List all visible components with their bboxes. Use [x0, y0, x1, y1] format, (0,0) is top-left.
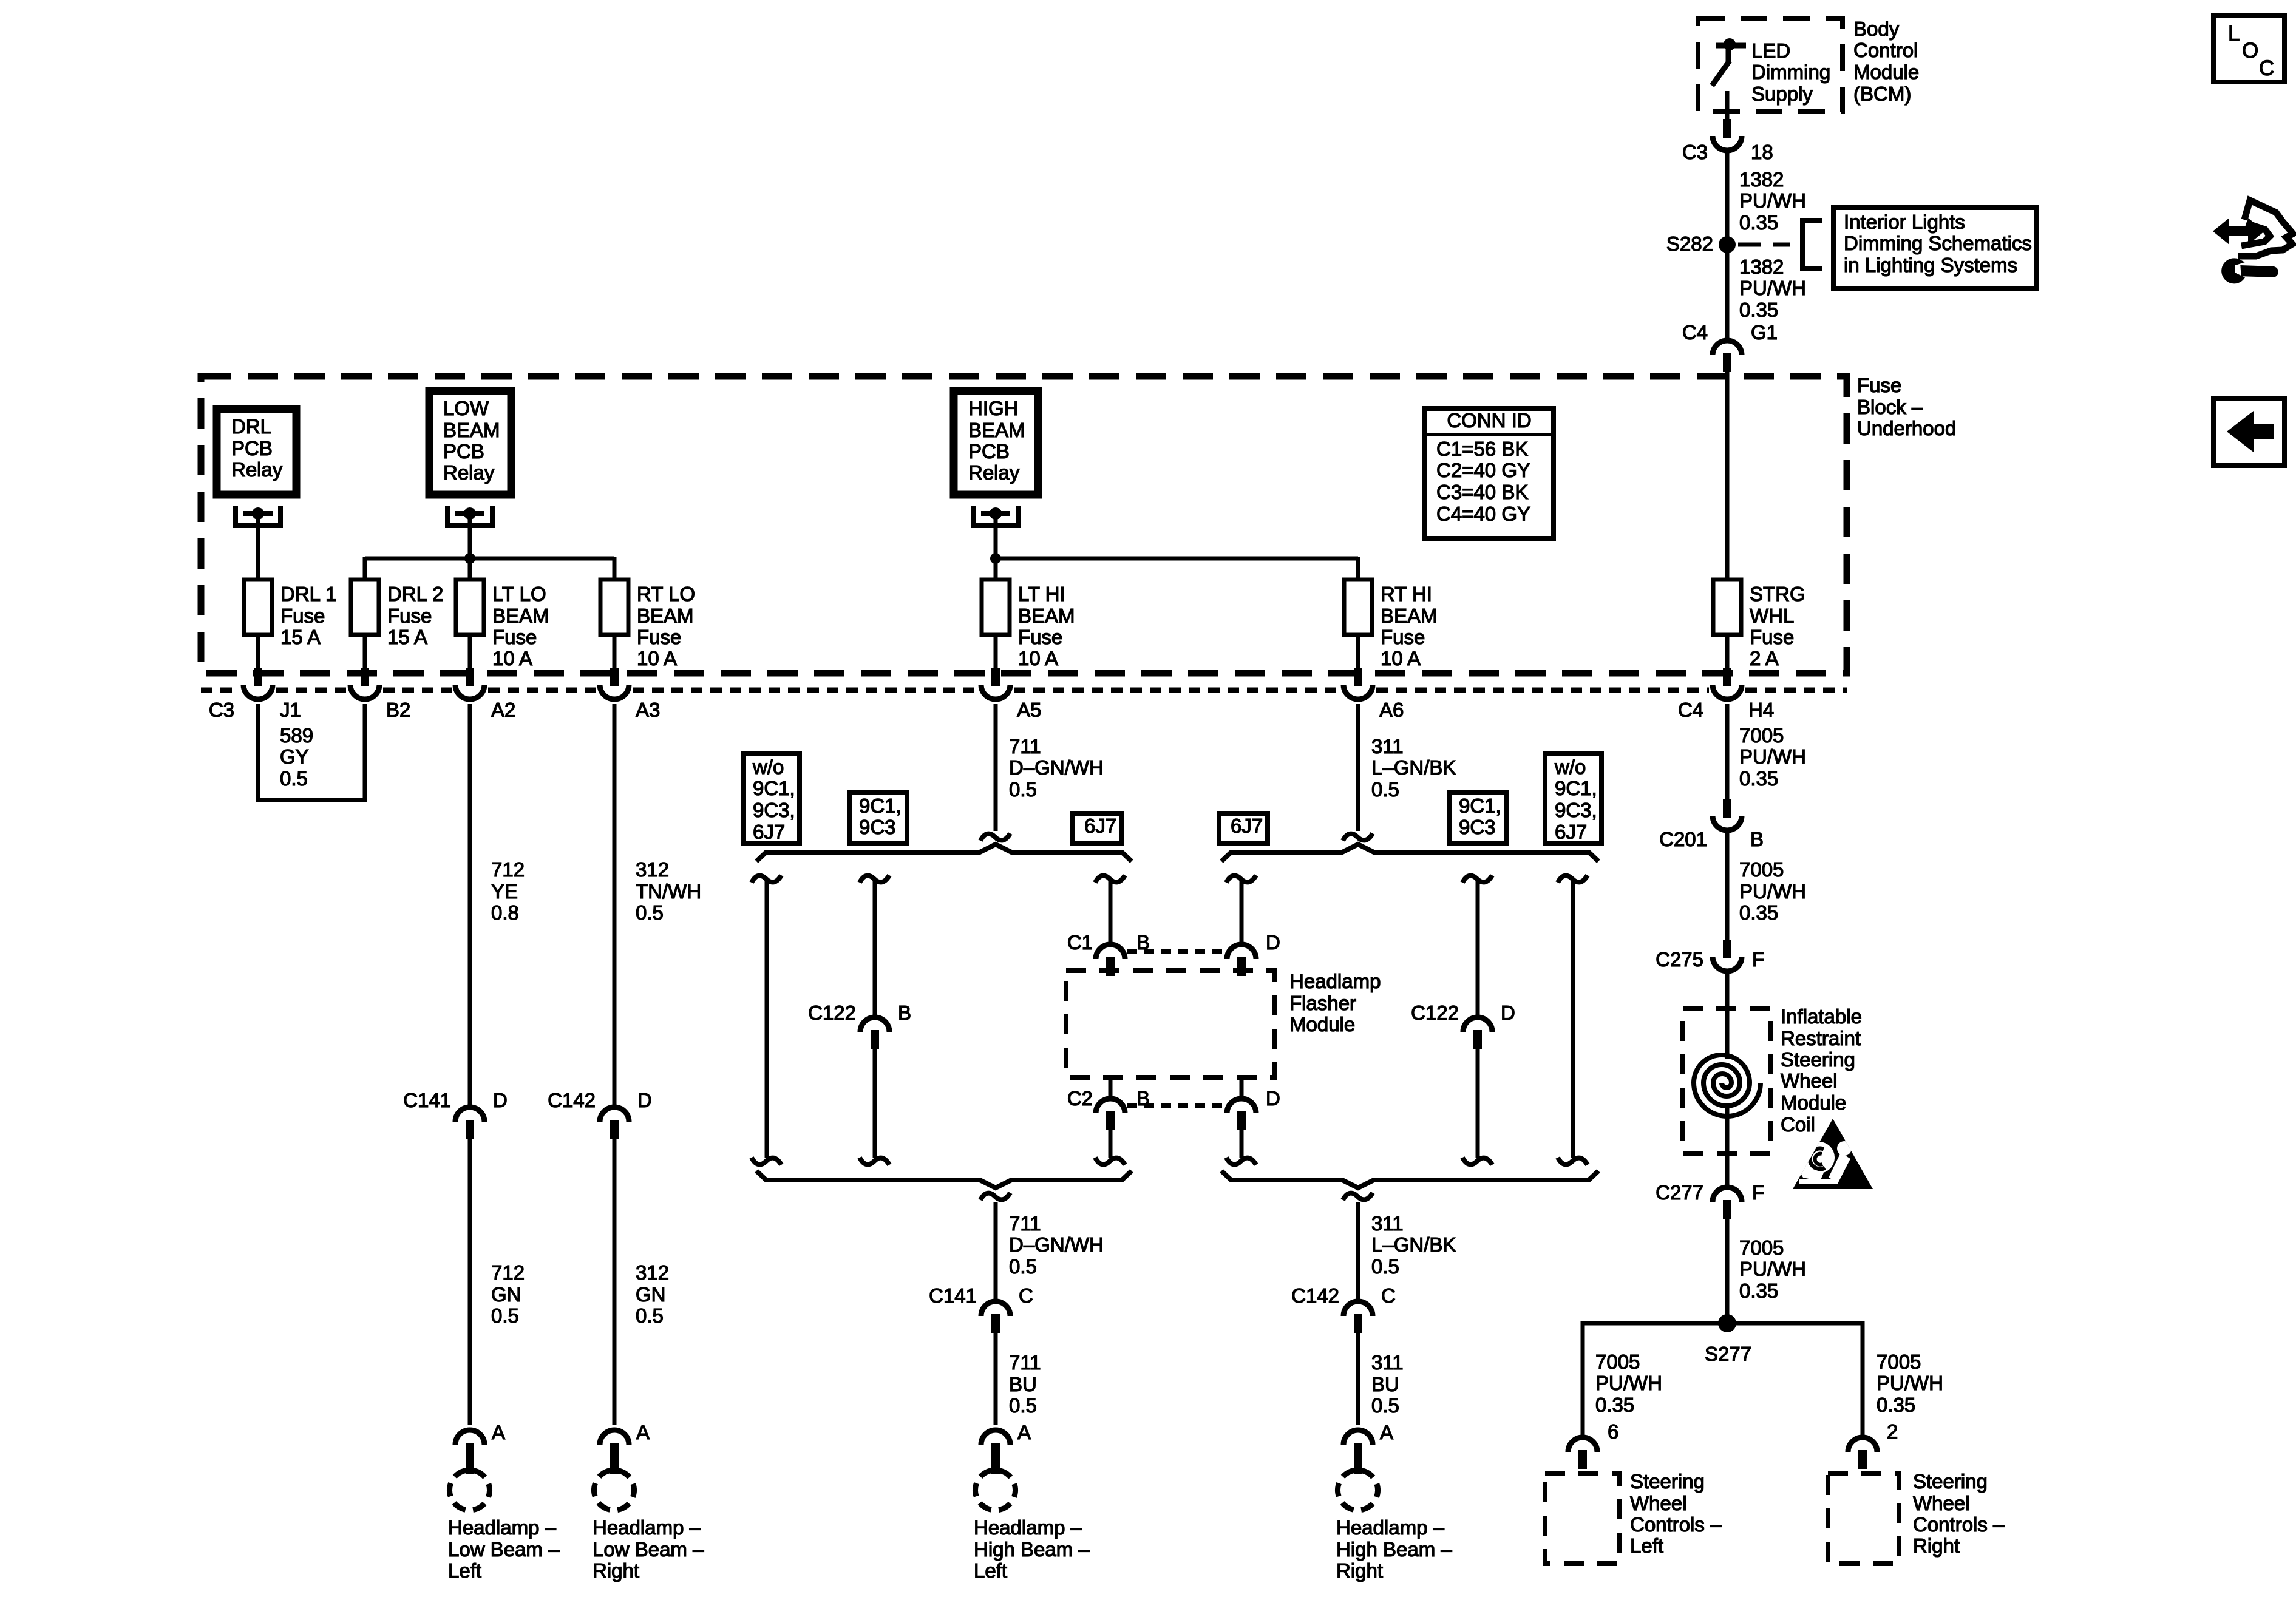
label C of C141	[1019, 1284, 1033, 1307]
label Steering Wheel Controls - Left	[1630, 1470, 1722, 1557]
connector pin A2 at fuse block	[455, 668, 484, 699]
option box w/o 9C1 9C3 6J7 left	[743, 754, 800, 844]
connector C3 pin 18	[1713, 119, 1742, 151]
svg-text:Module: Module	[1853, 61, 1919, 83]
svg-text:Interior Lights: Interior Lights	[1844, 211, 1965, 233]
svg-text:B: B	[1750, 828, 1764, 850]
label wire 312 TN/WH 0.5	[636, 858, 701, 924]
branch top squiggle (left high beam @1829)	[1095, 875, 1125, 883]
svg-text:Relay: Relay	[968, 461, 1020, 484]
label wire 7005 PU/WH 0.35 right branch	[1877, 1351, 1943, 1416]
label A6	[1379, 699, 1404, 721]
svg-text:BEAM: BEAM	[1018, 605, 1075, 627]
label wire 312 GN 0.5	[636, 1261, 669, 1327]
pin bracket of LOW BEAM relay	[447, 506, 492, 526]
svg-text:C: C	[1381, 1284, 1396, 1307]
wire HIGH BEAM relay to LT HI fuse	[994, 514, 998, 580]
svg-text:PCB: PCB	[231, 437, 273, 459]
svg-text:B: B	[898, 1002, 911, 1024]
branch top squiggle (left high beam @1441)	[860, 875, 889, 883]
label C141	[929, 1284, 977, 1307]
label C275	[1656, 948, 1703, 971]
label D of C122 right	[1501, 1002, 1515, 1024]
svg-text:9C1,: 9C1,	[1459, 795, 1501, 817]
label Fuse Block - Underhood	[1857, 374, 1956, 439]
svg-text:D: D	[1266, 931, 1280, 954]
label C4 row	[1678, 699, 1703, 721]
label F of C275	[1752, 948, 1764, 971]
headlamp flasher module dashed box	[1066, 971, 1275, 1077]
wire fan bottom to C142 (right high beam)	[1356, 1202, 1360, 1300]
wire RTLO/A3 fuse to block edge	[613, 635, 617, 671]
steering wheel controls left dashed box	[1545, 1474, 1620, 1564]
svg-text:0.5: 0.5	[1009, 778, 1037, 801]
svg-text:LOW: LOW	[443, 397, 489, 419]
label wire 712 GN 0.5	[491, 1261, 525, 1327]
svg-text:A2: A2	[491, 699, 515, 721]
svg-text:0.35: 0.35	[1739, 299, 1778, 321]
wire S282 to C4	[1725, 253, 1730, 339]
label STRG WHL Fuse 2 A	[1750, 583, 1805, 670]
svg-text:D–GN/WH: D–GN/WH	[1009, 1233, 1104, 1256]
wire H4 to C201	[1725, 704, 1730, 799]
svg-text:D: D	[493, 1089, 508, 1111]
label wire 1382 PU/WH 0.35 upper	[1739, 168, 1806, 234]
connector A (left high beam)	[981, 1430, 1010, 1474]
connector A (right low beam)	[600, 1430, 629, 1474]
svg-text:6J7: 6J7	[1555, 821, 1587, 843]
svg-text:C201: C201	[1659, 828, 1707, 850]
svg-text:Left: Left	[448, 1559, 481, 1582]
branch bottom squiggle (right high beam @2434)	[1462, 1158, 1492, 1165]
pin bracket of HIGH BEAM relay	[973, 506, 1018, 526]
branch wire 6J7 left upper	[1109, 881, 1113, 944]
svg-text:6J7: 6J7	[1231, 815, 1263, 837]
svg-text:C141: C141	[403, 1089, 451, 1111]
svg-text:Inflatable: Inflatable	[1781, 1005, 1862, 1028]
wire A row to fan top (left high beam)	[994, 704, 998, 831]
svg-text:C: C	[1019, 1284, 1033, 1307]
label wire 7005 PU/WH 0.35 left branch	[1595, 1351, 1662, 1416]
fuse LT HI BEAM	[982, 580, 1010, 635]
svg-text:9C1,: 9C1,	[859, 795, 902, 817]
fan-in bottom bracket (left high beam)	[756, 1171, 1132, 1188]
label C122 right	[1411, 1002, 1459, 1024]
label wire 7005 PU/WH 0.35 second	[1739, 858, 1806, 924]
conn id header separator	[1427, 433, 1551, 436]
label A (left high beam)	[1017, 1421, 1031, 1443]
svg-text:10 A: 10 A	[637, 647, 677, 670]
svg-text:BU: BU	[1371, 1373, 1399, 1395]
wire STRG/H4 fuse to block edge	[1725, 635, 1730, 671]
label RT HI BEAM Fuse 10 A	[1381, 583, 1438, 670]
svg-text:TN/WH: TN/WH	[636, 880, 701, 903]
wire coil module to C277	[1725, 1108, 1730, 1186]
label Headlamp – Low Beam – Right	[593, 1516, 704, 1582]
bus riser to RT LO fuse	[613, 557, 617, 580]
wire DRL relay to DRL1 fuse	[256, 514, 260, 580]
svg-text:w/o: w/o	[1554, 756, 1586, 778]
label H4	[1748, 699, 1774, 721]
svg-text:Headlamp: Headlamp	[1289, 970, 1381, 992]
svg-text:PU/WH: PU/WH	[1739, 745, 1806, 768]
svg-text:B2: B2	[386, 699, 410, 721]
svg-text:Flasher: Flasher	[1289, 992, 1356, 1014]
low beam fuse bus	[365, 557, 614, 561]
label w/o 9C1 9C3 6J7 left	[752, 756, 795, 843]
svg-text:9C3: 9C3	[1459, 816, 1496, 838]
connector pin A6 at fuse block	[1343, 668, 1373, 699]
svg-text:7005: 7005	[1877, 1351, 1921, 1373]
svg-text:BEAM: BEAM	[492, 605, 549, 627]
svg-text:w/o: w/o	[752, 756, 784, 778]
svg-text:C275: C275	[1656, 948, 1703, 971]
svg-text:1382: 1382	[1739, 168, 1784, 191]
svg-text:Steering: Steering	[1913, 1470, 1988, 1493]
label C2	[1067, 1087, 1093, 1110]
svg-text:0.5: 0.5	[1371, 1255, 1399, 1278]
svg-text:Right: Right	[1336, 1559, 1383, 1582]
svg-text:10 A: 10 A	[1018, 647, 1058, 670]
fuse LT LO BEAM	[456, 580, 484, 635]
back arrow	[2227, 411, 2274, 452]
svg-text:Fuse: Fuse	[637, 626, 681, 648]
wire C201 to C275	[1725, 833, 1730, 940]
label S277	[1705, 1343, 1751, 1365]
svg-text:C2=40 GY: C2=40 GY	[1436, 459, 1530, 481]
svg-text:C2: C2	[1067, 1087, 1093, 1110]
svg-text:0.8: 0.8	[491, 901, 519, 924]
wire DRL2/B2 fuse to block edge	[363, 635, 367, 671]
label C141	[403, 1089, 451, 1111]
branch wire w/o option right	[1571, 881, 1575, 1158]
lamp dashed circle (right high beam)	[1337, 1470, 1377, 1510]
label HIGH BEAM PCB Relay	[968, 397, 1025, 484]
junction dot high beam bus	[990, 553, 1001, 564]
label D of C141	[493, 1089, 508, 1111]
svg-text:9C3,: 9C3,	[1555, 799, 1597, 821]
svg-text:C3: C3	[1682, 141, 1708, 163]
label Inflatable Restraint Steering Wheel Module Coil	[1781, 1005, 1862, 1136]
svg-text:Left: Left	[974, 1559, 1007, 1582]
svg-text:PU/WH: PU/WH	[1739, 189, 1806, 212]
branch wire 9C1 9C3 left upper	[873, 881, 877, 1017]
branch wire 9C1 9C3 right lower	[1476, 1049, 1480, 1158]
connector C4 pin G1	[1713, 341, 1742, 372]
svg-text:Wheel: Wheel	[1781, 1070, 1838, 1092]
fuse RT HI BEAM	[1344, 580, 1372, 635]
bus riser to RT HI fuse	[1356, 557, 1360, 580]
svg-text:RT HI: RT HI	[1381, 583, 1432, 605]
connector C122 pin D	[1463, 1017, 1492, 1049]
svg-text:Wheel: Wheel	[1913, 1492, 1970, 1514]
connector C275 pin F	[1713, 940, 1742, 971]
svg-text:Fuse: Fuse	[1018, 626, 1062, 648]
svg-text:Control: Control	[1853, 39, 1918, 61]
label 6J7 left	[1084, 815, 1116, 837]
svg-text:BEAM: BEAM	[637, 605, 694, 627]
svg-text:C1: C1	[1067, 931, 1093, 954]
label B of C201	[1750, 828, 1764, 850]
label A5	[1017, 699, 1041, 721]
branch wire 6J7 right lower	[1240, 1130, 1244, 1158]
label F of C277	[1752, 1181, 1764, 1204]
connector A (right high beam)	[1343, 1430, 1373, 1474]
svg-text:DRL: DRL	[231, 415, 271, 438]
label wire 7005 PU/WH 0.35 third	[1739, 1236, 1806, 1302]
svg-text:711: 711	[1009, 735, 1041, 758]
connector pin A5 at fuse block	[981, 668, 1010, 699]
svg-text:BEAM: BEAM	[443, 419, 500, 441]
lamp dashed circle (left high beam)	[976, 1470, 1016, 1510]
svg-text:C142: C142	[1291, 1284, 1339, 1307]
branch top squiggle (right high beam @2591)	[1558, 875, 1588, 883]
wire A row to C142 D (right low beam)	[613, 704, 617, 1106]
svg-text:0.5: 0.5	[1371, 778, 1399, 801]
svg-text:High Beam –: High Beam –	[974, 1538, 1090, 1561]
svg-text:in Lighting Systems: in Lighting Systems	[1844, 254, 2017, 276]
svg-text:9C3,: 9C3,	[753, 799, 795, 821]
label C142	[548, 1089, 596, 1111]
svg-text:0.5: 0.5	[1371, 1394, 1399, 1417]
svg-text:Low Beam –: Low Beam –	[448, 1538, 560, 1561]
switch symbol inside LED Dimming Supply	[1712, 38, 1746, 86]
dashed lead from S282 to reference bracket	[1738, 243, 1790, 247]
label LT LO BEAM Fuse 10 A	[492, 583, 549, 670]
svg-text:711: 711	[1009, 1351, 1041, 1374]
svg-text:GN: GN	[491, 1283, 521, 1306]
svg-text:PU/WH: PU/WH	[1739, 1258, 1806, 1280]
wire C142 to lamp connector (right high beam)	[1356, 1333, 1360, 1425]
branch wire 6J7 left lower	[1109, 1130, 1113, 1158]
svg-text:LT LO: LT LO	[492, 583, 546, 605]
label wire 311 L–GN/BK 0.5 lower	[1371, 1212, 1456, 1278]
connector D lower (headlamp flasher)	[1227, 1099, 1256, 1130]
svg-text:A: A	[1380, 1421, 1393, 1443]
label DRL PCB Relay	[231, 415, 283, 481]
dotted link C2 B to D	[1127, 1103, 1222, 1108]
lamp dashed circle (left low beam)	[450, 1470, 490, 1510]
label 18	[1751, 141, 1773, 163]
svg-text:DRL 2: DRL 2	[387, 583, 443, 605]
label wire 711 D–GN/WH 0.5 lower	[1009, 1212, 1104, 1278]
label S282	[1666, 232, 1713, 255]
svg-text:6J7: 6J7	[1084, 815, 1116, 837]
break squiggle lower (left high beam)	[980, 1193, 1010, 1200]
wire BCM output to connector C3	[1725, 91, 1730, 120]
svg-text:Fuse: Fuse	[280, 605, 325, 627]
relay DRL PCB Relay box	[217, 409, 296, 495]
connector C142 pin D	[600, 1107, 629, 1139]
option box 9C1 9C3 left	[849, 793, 907, 844]
label D of C142	[637, 1089, 652, 1111]
connector D upper (headlamp flasher)	[1227, 944, 1256, 976]
label C122 left	[808, 1002, 856, 1024]
svg-text:DRL 1: DRL 1	[280, 583, 336, 605]
svg-text:Controls –: Controls –	[1913, 1513, 2005, 1536]
label C of C142	[1381, 1284, 1396, 1307]
wire S277 to steering wheel controls left	[1581, 1321, 1585, 1435]
svg-text:311: 311	[1371, 1212, 1404, 1235]
svg-text:Module: Module	[1289, 1013, 1355, 1036]
svg-text:311: 311	[1371, 735, 1404, 758]
svg-text:Block –: Block –	[1857, 396, 1923, 418]
wire RTHI/A6 fuse to block edge	[1356, 635, 1360, 671]
fan-in bottom bracket (right high beam)	[1221, 1171, 1598, 1188]
svg-text:712: 712	[491, 858, 525, 881]
svg-text:Headlamp –: Headlamp –	[1336, 1516, 1445, 1539]
svg-text:YE: YE	[491, 880, 518, 903]
svg-text:(BCM): (BCM)	[1853, 83, 1911, 105]
wire C275 into coil module	[1725, 974, 1730, 1059]
label wire 712 YE 0.8	[491, 858, 525, 924]
branch bottom squiggle (left high beam @1263)	[752, 1158, 781, 1165]
label C3 row	[209, 699, 234, 721]
label wire 1382 PU/WH 0.35 lower	[1739, 256, 1806, 321]
airbag warning triangle	[1793, 1119, 1873, 1189]
fuse block underhood dashed box	[201, 376, 1847, 673]
connector C142 pin C	[1343, 1301, 1373, 1333]
branch bottom squiggle (left high beam @1829)	[1095, 1158, 1125, 1165]
label pin 6	[1608, 1420, 1618, 1443]
label Headlamp – High Beam – Right	[1336, 1516, 1452, 1582]
label Body Control Module (BCM)	[1853, 18, 1919, 105]
label 6J7 right	[1231, 815, 1263, 837]
svg-text:9C3: 9C3	[859, 816, 896, 838]
label RT LO BEAM Fuse 10 A	[637, 583, 695, 670]
label B of C2	[1136, 1087, 1150, 1110]
svg-text:PU/WH: PU/WH	[1739, 880, 1806, 903]
svg-text:C141: C141	[929, 1284, 977, 1307]
svg-text:Fuse: Fuse	[1750, 626, 1794, 648]
fuse RT LO BEAM	[600, 580, 628, 635]
svg-text:Supply: Supply	[1751, 83, 1813, 105]
label LED Dimming Supply	[1751, 39, 1830, 105]
navigation arrow-wrench icon	[2213, 200, 2293, 283]
svg-text:Fuse: Fuse	[387, 605, 432, 627]
wire A row to fan top (right high beam)	[1356, 704, 1360, 831]
svg-text:312: 312	[636, 1261, 669, 1284]
svg-text:0.5: 0.5	[636, 1304, 664, 1327]
label B2	[386, 699, 410, 721]
svg-text:D: D	[1501, 1002, 1515, 1024]
svg-text:0.35: 0.35	[1595, 1394, 1634, 1416]
svg-text:PCB: PCB	[968, 440, 1010, 463]
label LT HI BEAM Fuse 10 A	[1018, 583, 1075, 670]
break squiggle upper (right high beam)	[1343, 833, 1373, 841]
wire LOW BEAM relay through bus to LT LO fuse	[468, 514, 472, 580]
svg-text:6J7: 6J7	[753, 821, 785, 843]
svg-text:Restraint: Restraint	[1781, 1027, 1861, 1049]
BCM LED Dimming Supply dashed box	[1698, 19, 1843, 112]
svg-text:0.35: 0.35	[1739, 767, 1778, 790]
svg-text:Steering: Steering	[1781, 1048, 1855, 1071]
label 9C1 9C3 right	[1459, 795, 1501, 838]
connector pin 6	[1568, 1437, 1597, 1469]
svg-text:Module: Module	[1781, 1091, 1846, 1114]
connector pin 2	[1848, 1437, 1877, 1469]
label A3	[636, 699, 660, 721]
branch wire 9C1 9C3 left lower	[873, 1049, 877, 1158]
break squiggle lower (right high beam)	[1343, 1193, 1373, 1200]
svg-text:Dimming: Dimming	[1751, 61, 1830, 83]
svg-text:High Beam –: High Beam –	[1336, 1538, 1452, 1561]
label Interior Lights Dimming Schematics in Lighting Systems	[1844, 211, 2032, 276]
svg-text:BU: BU	[1009, 1373, 1037, 1395]
svg-text:Fuse: Fuse	[492, 626, 537, 648]
svg-text:PU/WH: PU/WH	[1595, 1372, 1662, 1394]
svg-text:L–GN/BK: L–GN/BK	[1371, 756, 1456, 779]
back arrow legend box	[2213, 398, 2284, 466]
svg-text:L: L	[2228, 22, 2240, 46]
wire J1 to B2 loop	[258, 704, 365, 800]
wire C277 to S277	[1725, 1219, 1730, 1316]
svg-text:D: D	[637, 1089, 652, 1111]
svg-text:F: F	[1752, 1181, 1764, 1204]
splice S282	[1719, 236, 1736, 253]
svg-text:L–GN/BK: L–GN/BK	[1371, 1233, 1456, 1256]
svg-text:711: 711	[1009, 1212, 1041, 1235]
label conn id rows	[1436, 438, 1530, 525]
svg-text:7005: 7005	[1739, 858, 1784, 881]
label C4	[1682, 321, 1708, 344]
label pin 2	[1887, 1420, 1898, 1443]
svg-text:A: A	[636, 1421, 650, 1443]
label Headlamp – Low Beam – Left	[448, 1516, 560, 1582]
svg-text:GN: GN	[636, 1283, 666, 1306]
label J1	[280, 699, 301, 721]
svg-text:A5: A5	[1017, 699, 1041, 721]
wire A row to C141 D (left low beam)	[468, 704, 472, 1106]
svg-text:0.35: 0.35	[1739, 211, 1778, 234]
svg-text:2: 2	[1887, 1420, 1898, 1443]
wire C3 to S282	[1725, 152, 1730, 238]
fuse DRL 2	[351, 580, 379, 635]
svg-text:311: 311	[1371, 1351, 1404, 1374]
connector C141 pin D	[455, 1107, 484, 1139]
reference box Interior Lights Dimming Schematics	[1833, 208, 2037, 289]
label LOW BEAM PCB Relay	[443, 397, 500, 484]
svg-text:F: F	[1752, 948, 1764, 971]
relay LOW BEAM PCB Relay box	[429, 391, 511, 495]
label CONN ID	[1447, 409, 1531, 432]
high beam fuse bus	[996, 557, 1358, 561]
svg-text:C4: C4	[1678, 699, 1703, 721]
fuse block connector row dotted line	[201, 688, 1847, 693]
svg-text:Low Beam –: Low Beam –	[593, 1538, 704, 1561]
svg-text:Relay: Relay	[443, 461, 495, 484]
svg-text:0.5: 0.5	[280, 767, 308, 790]
wire LTHI/A5 fuse to block edge	[994, 635, 998, 671]
svg-text:0.5: 0.5	[1009, 1255, 1037, 1278]
LOC legend box	[2213, 16, 2284, 82]
fuse DRL 1	[244, 580, 272, 635]
svg-text:A: A	[1017, 1421, 1031, 1443]
label B of C1	[1136, 931, 1150, 954]
svg-text:1382: 1382	[1739, 256, 1784, 278]
svg-text:Body: Body	[1853, 18, 1900, 40]
branch bottom squiggle (right high beam @2591)	[1558, 1158, 1588, 1165]
connector C201 pin B	[1713, 799, 1742, 830]
label B of C122 left	[898, 1002, 911, 1024]
bus riser to DRL 2 fuse	[363, 557, 367, 580]
svg-text:GY: GY	[280, 745, 309, 768]
svg-text:C1=56 BK: C1=56 BK	[1436, 438, 1528, 460]
label A (right high beam)	[1380, 1421, 1393, 1443]
connector pin B2 at fuse block	[350, 668, 379, 699]
svg-text:9C1,: 9C1,	[753, 777, 795, 799]
steering controls branch bus	[1583, 1321, 1863, 1326]
